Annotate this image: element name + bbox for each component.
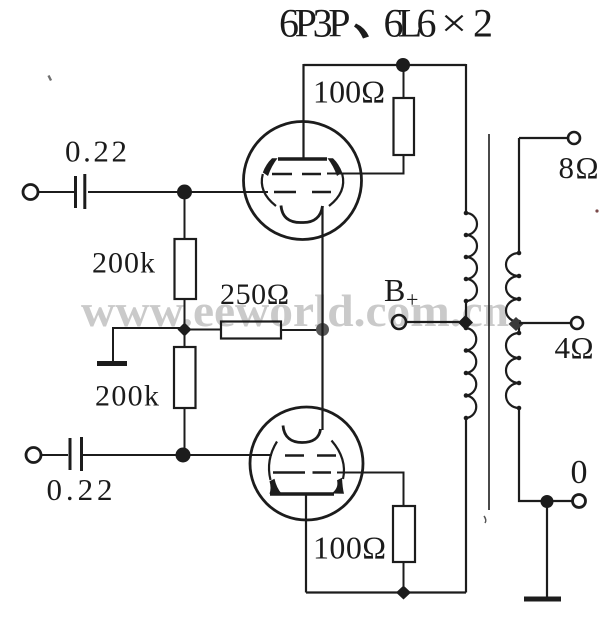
node I junction dot (bottom rail) xyxy=(396,586,411,600)
stray speck right margin xyxy=(595,209,598,212)
wire: top plate rail xyxy=(304,64,467,66)
svg-text:B: B xyxy=(384,272,405,308)
tube V1 envelope xyxy=(244,122,362,240)
wire: bottom rail (V2 plate to primary) xyxy=(306,591,466,593)
node H junction dot (0 line) xyxy=(541,495,554,508)
resistor R3 250 ohm xyxy=(221,322,281,339)
resistor R5 100 ohm xyxy=(393,506,415,562)
node A junction dot xyxy=(177,185,192,200)
wire: upper input to capacitor C1 xyxy=(38,191,74,193)
svg-text:+: + xyxy=(406,287,418,312)
V1 cathode xyxy=(281,206,323,223)
V1 beam plate left arc xyxy=(262,174,276,206)
capacitor C1 xyxy=(76,174,85,209)
core bottom tick xyxy=(484,516,486,523)
V1 beam plate right (arrow wedge) xyxy=(328,158,343,176)
wire: B+ to primary centre tap xyxy=(406,321,466,323)
wire: C2 to V2 grid (node C row) xyxy=(83,454,272,456)
wire: node B to ground (left) xyxy=(113,328,185,361)
V2 plate lead wire xyxy=(305,494,307,593)
svg-text:100Ω: 100Ω xyxy=(313,530,386,566)
transformer winding cusp knots xyxy=(464,211,522,421)
wire: R5 to bottom rail xyxy=(403,562,405,593)
V2 control grid G1 (dashed) xyxy=(285,454,336,457)
B+ label xyxy=(384,272,418,312)
tube V2 envelope xyxy=(250,407,363,520)
wire: node B to resistor R3 xyxy=(185,329,222,331)
V2 screen grid G2 (dashed) xyxy=(273,471,331,474)
svg-text:0.22: 0.22 xyxy=(65,134,127,169)
ground (left) xyxy=(97,361,127,366)
node F primary centre tap dot xyxy=(458,315,473,330)
V2 beam plate left (arrow wedge) xyxy=(270,479,282,494)
B+ terminal xyxy=(392,315,406,329)
node E junction dot (top rail) xyxy=(396,58,410,72)
svg-text:200k: 200k xyxy=(95,380,159,413)
svg-text:2: 2 xyxy=(473,1,493,46)
title label 6P3P, 6L6 x2 xyxy=(279,1,493,46)
node C junction dot xyxy=(176,448,191,463)
capacitor C2 xyxy=(70,437,82,471)
node D junction dot (cathode line) xyxy=(316,323,329,336)
node G secondary tap dot xyxy=(509,317,524,331)
wire: node H to ground (bottom right) xyxy=(546,501,548,597)
wire: secondary top to 8 ohm terminal xyxy=(519,137,567,139)
V1 screen grid G2 (dashed) xyxy=(272,173,321,176)
svg-text:0: 0 xyxy=(571,454,588,491)
svg-text:200k: 200k xyxy=(92,247,155,280)
wire: R4 to V1 screen grid xyxy=(327,155,404,174)
svg-text:0.22: 0.22 xyxy=(47,472,113,507)
stray speck top-left xyxy=(49,76,52,81)
wire: R1 to node B xyxy=(184,299,186,347)
svg-text:250Ω: 250Ω xyxy=(220,278,289,311)
V2 beam plate left arc xyxy=(269,442,277,481)
wire: R3 to cathode line node D xyxy=(281,329,323,331)
V1 plate xyxy=(278,157,327,160)
transformer T1 secondary winding xyxy=(506,138,572,501)
svg-text:8Ω: 8Ω xyxy=(559,150,599,185)
V1 beam plate right arc xyxy=(329,174,343,206)
svg-text:100Ω: 100Ω xyxy=(313,74,385,110)
4 ohm terminal xyxy=(571,317,583,329)
svg-text:6P3P: 6P3P xyxy=(279,1,351,46)
wire: node A down to R1 xyxy=(184,192,186,240)
wire: node E to R4 xyxy=(403,65,405,98)
wire: lower input to capacitor C2 xyxy=(41,454,68,456)
V1 plate lead wire xyxy=(302,64,304,159)
resistor R2 200k xyxy=(174,347,196,408)
wire: cathode line V1 to V2 xyxy=(321,206,323,430)
V2 plate xyxy=(270,492,334,495)
V2 beam plate right arc xyxy=(332,441,344,480)
svg-text:6L6: 6L6 xyxy=(384,1,437,46)
0 terminal xyxy=(573,495,586,508)
wire: V2 screen grid to R5 xyxy=(337,473,404,507)
ground (bottom right) xyxy=(524,597,561,602)
input terminal (upper) xyxy=(23,185,38,200)
svg-text:4Ω: 4Ω xyxy=(555,330,594,365)
transformer T1 primary winding xyxy=(466,64,477,593)
8 ohm terminal xyxy=(568,132,580,144)
V2 beam plate right (arrow wedge) xyxy=(332,478,345,494)
wire: C1 to V1 grid (node A row) xyxy=(88,191,268,193)
svg-text:×: × xyxy=(441,1,467,46)
V2 cathode xyxy=(283,426,321,443)
wire: secondary tap to 4 ohm terminal xyxy=(519,322,570,324)
node B junction dot xyxy=(178,323,192,337)
wire: R2 to lower input node C xyxy=(184,408,186,455)
V1 beam plate left (arrow wedge) xyxy=(263,158,278,176)
V1 control grid G1 (dashed) xyxy=(274,191,331,194)
resistor R1 200k xyxy=(175,239,197,299)
transformer T1 core xyxy=(488,134,490,510)
input terminal (lower) xyxy=(26,448,41,463)
resistor R4 100 ohm xyxy=(394,98,415,155)
